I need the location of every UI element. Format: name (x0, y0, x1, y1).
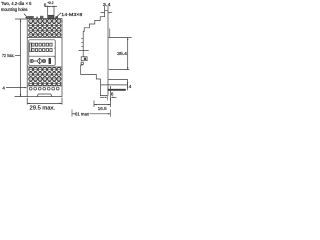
bottom screw block: 4 rows (27, 66, 62, 68)
front bottom step detail (37, 94, 52, 97)
dim 6±0.2 extension lines (48, 6, 54, 16)
dim 6±0.2 line with arrows (45, 6, 57, 8)
label 14-M3×8 (61, 12, 82, 18)
svg-text:3.4: 3.4 (103, 2, 111, 7)
svg-text:4: 4 (2, 86, 5, 91)
dim 29.5 max line (27, 102, 62, 104)
svg-text:14-M3×8: 14-M3×8 (61, 12, 82, 18)
svg-text:29.5 max.: 29.5 max. (30, 106, 56, 112)
dim 6±0.2 text (44, 1, 54, 8)
top edge bracket features (27, 16, 34, 19)
svg-text:16.5: 16.5 (98, 106, 107, 111)
svg-text:72 max.: 72 max. (2, 53, 15, 59)
dim 35.4 line (127, 38, 129, 70)
leader arrow from note to body corner (24, 14, 28, 19)
dim 16.5 line (94, 104, 111, 106)
side back edge (107, 10, 109, 95)
label: mounting holes note (1, 1, 32, 13)
bottom small holes row (29, 87, 59, 90)
lever slot left inside recess (30, 43, 32, 52)
seam line (79, 49, 89, 51)
dim 72 max line (20, 19, 22, 97)
recess right edge ticks (53, 47, 56, 58)
svg-text:Two, 4.2-dia × 5: Two, 4.2-dia × 5 (1, 1, 32, 7)
side profile (83, 10, 108, 50)
pin hole squares rows (32, 43, 52, 51)
svg-text:4: 4 (129, 84, 132, 89)
svg-text:6: 6 (111, 92, 114, 97)
dim 35.4 extension lines (109, 38, 132, 70)
leader for 14-M3×8 (55, 13, 61, 18)
svg-text:35.4: 35.4 (117, 51, 127, 56)
dim 61 max line (72, 110, 111, 117)
top tab (6±0.2 feature) (48, 15, 54, 18)
flange extension lines right (101, 84, 128, 86)
dim 4 (right) line (127, 80, 129, 91)
screw ticks on side front edge (81, 39, 83, 47)
dim 29.5 max extension lines (27, 98, 62, 105)
svg-text:+0.2: +0.2 (47, 1, 54, 5)
lower recess circles and clip hole (30, 59, 33, 62)
dim 16.5 extension lines (94, 98, 111, 107)
front view body outline (27, 19, 62, 97)
middle relay recess rectangle (29, 40, 55, 66)
dim 72 max extension lines (15, 19, 28, 97)
rear hook (109, 29, 111, 38)
panel line (110, 86, 112, 101)
svg-text:mounting holes: mounting holes (1, 7, 28, 13)
dim 72 max text (2, 53, 15, 59)
label 4 with leader (left) (2, 86, 5, 91)
divider inside recess (29, 55, 55, 57)
front view top screw block: 4 rows of terminal screws (29, 19, 61, 37)
svg-text:61 max: 61 max (75, 111, 90, 116)
dim 6 arrows (100, 96, 104, 98)
dim 3.4 text (103, 2, 111, 7)
mounting flange bar (108, 89, 126, 90)
clip anchor dark box (81, 57, 87, 61)
dim 3.4 extension and arrows (105, 6, 108, 10)
